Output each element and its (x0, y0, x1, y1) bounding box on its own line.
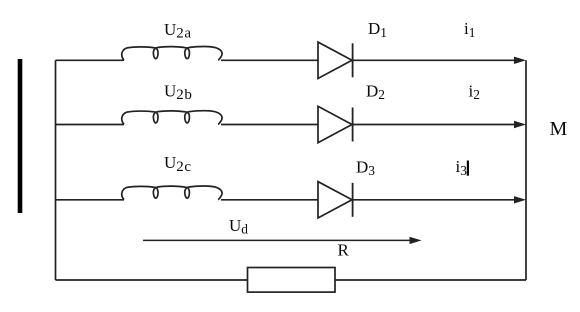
diode D1 cathode bar (352, 43, 354, 77)
svg-text:U2b: U2b (164, 81, 192, 103)
arrowhead i1 (514, 57, 526, 64)
winding U2c (transformer secondary c) (122, 186, 222, 200)
wire: bottom left segment (56, 279, 248, 281)
svg-text:U2a: U2a (164, 20, 192, 42)
wire: right bus to node M (525, 60, 527, 280)
svg-text:Ud: Ud (229, 216, 248, 237)
svg-text:D3: D3 (356, 157, 375, 178)
resistor R (load) (248, 268, 336, 293)
Ud voltage reference arrow (143, 239, 412, 241)
svg-text:i2: i2 (469, 81, 480, 102)
svg-text:D2: D2 (366, 81, 385, 102)
diode D1 triangle (318, 42, 352, 78)
winding U2b (transformer secondary b) (122, 111, 222, 125)
wire: left bus (secondary common) (55, 60, 57, 280)
svg-text:M: M (550, 118, 568, 140)
arrowhead i3 (514, 196, 526, 203)
wire: D2 cathode to node M with current i2 arrow (353, 124, 520, 126)
winding U2a (transformer secondary a) (122, 46, 222, 60)
diode D2 cathode bar (352, 108, 354, 142)
arrowhead Ud (410, 237, 422, 244)
wire: phase c from bus to winding (56, 199, 125, 201)
diode D3 cathode bar (352, 183, 354, 217)
transformer primary core bar (18, 59, 23, 213)
wire: D1 cathode to node M with current i1 arrow (353, 59, 520, 61)
wire: bottom right segment (335, 279, 526, 281)
wire: phase c winding to diode D3 anode (221, 199, 318, 201)
wire: phase b winding to diode D2 anode (221, 124, 318, 126)
wire: phase a winding to diode D1 anode (221, 59, 318, 61)
arrowhead i2 (514, 121, 526, 128)
svg-text:i1: i1 (464, 19, 475, 40)
svg-text:U2c: U2c (164, 153, 192, 175)
svg-text:i3: i3 (456, 157, 468, 178)
wire: D3 cathode to node M with current i3 arrow (353, 199, 520, 201)
diode D3 triangle (318, 182, 352, 218)
wire: phase a from bus to winding (56, 59, 125, 61)
diode D2 triangle (318, 106, 352, 142)
svg-text:R: R (338, 241, 350, 260)
text cursor bar after i3 (467, 161, 469, 176)
svg-text:D1: D1 (368, 19, 387, 40)
wire: phase b from bus to winding (56, 124, 125, 126)
